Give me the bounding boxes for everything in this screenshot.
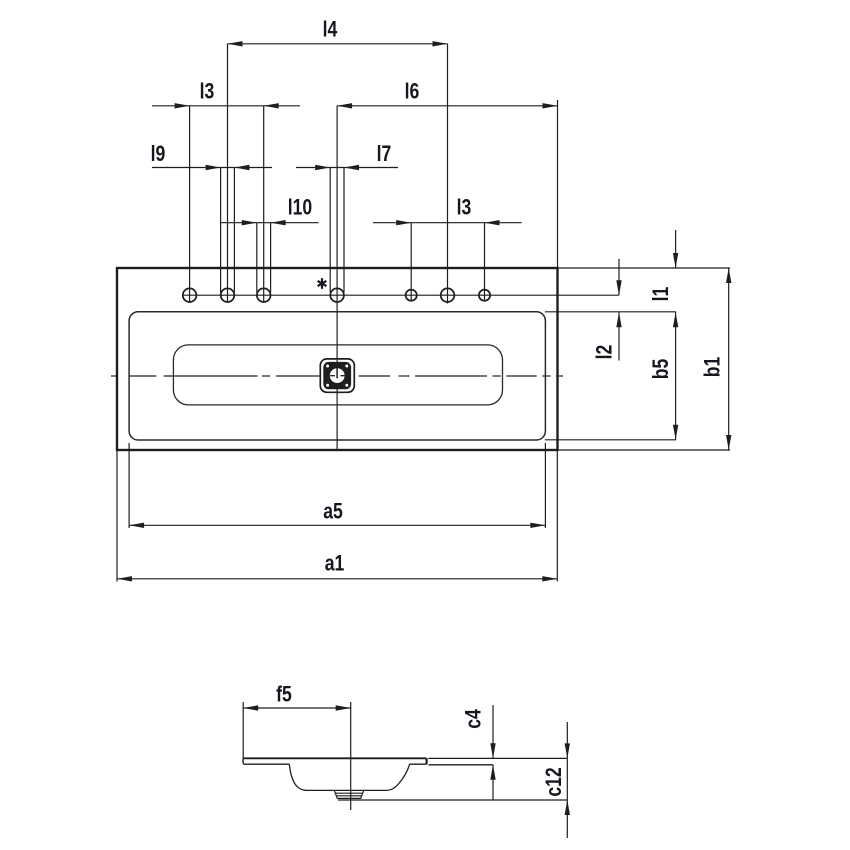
dimension c12 <box>566 722 568 838</box>
svg-text:l3: l3 <box>457 196 472 220</box>
dimension l2 <box>618 259 620 361</box>
side view centerline <box>350 702 352 810</box>
dimension l6 <box>337 100 557 268</box>
svg-text:c4: c4 <box>462 709 486 729</box>
faucet hole H3 <box>257 106 271 302</box>
svg-text:a1: a1 <box>325 552 345 576</box>
svg-text:c12: c12 <box>542 767 566 796</box>
horizontal centerline (dash-dot) <box>111 375 563 377</box>
dimension l7 <box>296 167 398 169</box>
faucet hole H5 <box>406 223 417 301</box>
slab (side view, basin part) <box>243 758 427 764</box>
drain stub (side view) <box>335 791 364 799</box>
svg-text:l6: l6 <box>405 80 420 104</box>
svg-text:b5: b5 <box>649 359 673 380</box>
vertical centerline through drain <box>336 106 338 450</box>
svg-text:l3: l3 <box>200 80 215 104</box>
bowl rounded rect (top view) <box>173 345 502 405</box>
asterisk marker <box>318 278 327 289</box>
svg-text:b1: b1 <box>701 357 725 378</box>
faucet hole H2 <box>221 44 235 302</box>
dimension l10 <box>220 222 319 224</box>
dimension b5 <box>675 312 677 440</box>
svg-text:l9: l9 <box>151 142 166 166</box>
faucet hole H1 <box>183 106 197 302</box>
svg-text:l10: l10 <box>288 196 312 220</box>
faucet hole H6 <box>441 44 455 304</box>
right side extension lines <box>545 268 730 450</box>
drain assembly (top view) <box>320 359 354 392</box>
svg-text:f5: f5 <box>276 683 292 707</box>
dimension a1 <box>117 450 557 582</box>
dimension a5 <box>129 443 545 528</box>
dimension b1 <box>728 268 730 450</box>
svg-text:l4: l4 <box>323 18 338 42</box>
dimension f5 <box>243 702 351 758</box>
deck rounded rect (top view inner) <box>129 312 545 440</box>
bowl profile (side view) <box>289 764 409 790</box>
svg-text:l7: l7 <box>377 142 392 166</box>
bottom extension line (side view) <box>338 799 567 801</box>
dimension l3 left <box>152 105 300 107</box>
dimension l3 right <box>373 222 522 224</box>
faucet hole H7 <box>479 223 490 301</box>
dimension l9 <box>152 167 272 169</box>
dimension l4 <box>228 43 448 45</box>
dimension l1 <box>675 230 677 268</box>
svg-text:a5: a5 <box>323 500 343 524</box>
faucet hole H4 (center) <box>330 168 344 303</box>
svg-text:l1: l1 <box>649 287 673 302</box>
svg-text:l2: l2 <box>593 345 617 360</box>
rear ledge (side view) <box>428 758 567 764</box>
dimension c4 <box>492 705 494 800</box>
line through faucet holes <box>183 294 619 296</box>
washbasin outer rim (top view) <box>117 268 558 450</box>
